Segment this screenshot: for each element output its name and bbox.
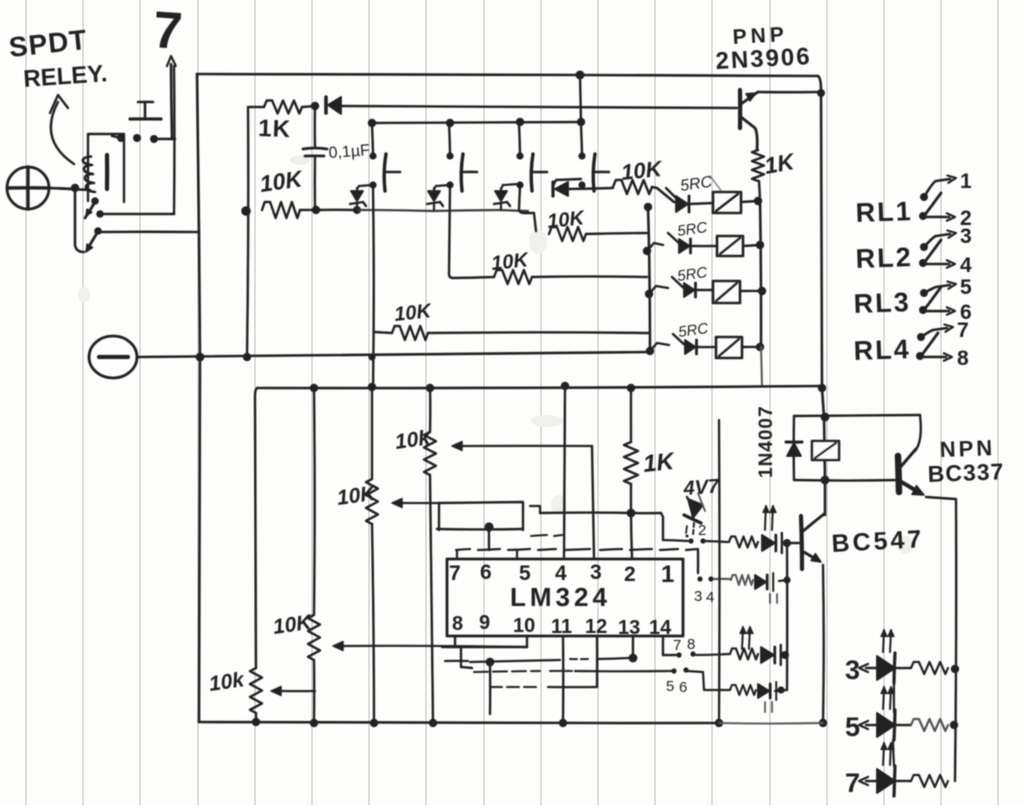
mid rail x719	[718, 420, 721, 722]
node pin13	[629, 654, 638, 663]
resistor output 3	[911, 662, 948, 674]
wire row1 to BC547 base	[787, 542, 799, 544]
node bottom mid rail	[715, 719, 723, 727]
switch contact 2	[919, 212, 927, 220]
diode D4 1N4007	[787, 443, 801, 456]
relay output rail	[760, 201, 761, 347]
node right rail ch4	[756, 343, 764, 351]
wire bus to P1	[429, 388, 432, 432]
Q5 emitter	[741, 92, 758, 104]
switch S1 contacts	[117, 134, 125, 142]
stub pin6	[488, 529, 490, 550]
wire LED cathode link	[893, 683, 895, 712]
wire LED 7 to resistor	[895, 780, 911, 782]
SCR3	[684, 283, 695, 297]
svg-text:1K: 1K	[762, 148, 797, 179]
svg-text:7: 7	[449, 562, 461, 585]
tick pin5	[516, 550, 518, 559]
relay K2 coil box	[812, 441, 839, 460]
wire Q7 emitter to right rail	[926, 497, 955, 499]
bottom bus	[199, 722, 719, 723]
arrow output 3	[866, 667, 877, 669]
transistor cell Q2	[449, 124, 450, 153]
node rail ch2	[643, 247, 651, 255]
svg-text:RL3: RL3	[853, 287, 911, 319]
pencil mark ch1	[710, 176, 722, 192]
lower supply bus	[257, 386, 822, 388]
svg-text:3: 3	[590, 561, 602, 584]
svg-text:RL4: RL4	[853, 334, 911, 366]
svg-text:10K: 10K	[393, 300, 433, 326]
wire cell2 to R ch3	[453, 277, 494, 278]
feedback loop rectangle pin6	[439, 502, 523, 530]
node row1 output	[783, 539, 791, 547]
top supply wire	[197, 74, 818, 76]
transistor Q6 BC547 base bar	[801, 516, 802, 569]
svg-text:4: 4	[960, 254, 972, 277]
wire P4 to bottom bus	[255, 713, 257, 722]
wire pin9 hook	[461, 648, 472, 668]
wire P1 to bottom bus	[430, 475, 433, 722]
relay RL2 coil box	[717, 236, 743, 256]
wire SCR4 to RL4	[697, 346, 716, 349]
svg-text:3: 3	[845, 655, 860, 685]
svg-text:BC337: BC337	[927, 458, 1004, 487]
wire RL4 to rail	[742, 346, 760, 348]
node bus right rail	[818, 384, 826, 392]
node cell1 bus	[368, 119, 376, 127]
jog at left of pin2 wire	[530, 506, 540, 513]
wire cell1 collector down	[372, 186, 375, 388]
wire SCR2 to RL2	[691, 245, 717, 247]
wire 10K to cap bottom	[300, 209, 316, 211]
svg-text:14: 14	[649, 617, 672, 639]
wire SCR1 to relay RL1 coil	[690, 203, 713, 204]
svg-text:9: 9	[479, 612, 490, 634]
wire P1 wiper to pin3	[592, 446, 594, 558]
svg-text:5: 5	[519, 562, 531, 585]
left SCR rail	[648, 206, 650, 352]
wire 7-line down	[173, 66, 176, 214]
arrows LED 7	[883, 743, 884, 765]
wire top to cell4	[580, 75, 581, 122]
svg-text:6: 6	[480, 561, 492, 584]
relay loop right curve	[915, 415, 921, 451]
wire ch1 diag	[652, 187, 674, 202]
relay moving arm lower	[88, 233, 97, 248]
wire LED 3 to resistor	[895, 667, 911, 669]
wire bus to P3	[313, 388, 316, 615]
wire ch4 hook	[650, 343, 669, 351]
svg-text:10K: 10K	[620, 156, 665, 185]
node bus P2	[368, 383, 376, 391]
node row3 output	[781, 651, 789, 659]
svg-text:8: 8	[452, 613, 463, 635]
relay RL1 coil box	[713, 192, 741, 213]
svg-text:12: 12	[585, 616, 607, 638]
gate bus wire	[316, 209, 357, 212]
wire lineC pin12	[490, 686, 540, 688]
SCR2	[679, 239, 690, 253]
wire 1K to relay rail	[759, 181, 760, 201]
wire row2 to rail	[779, 580, 787, 581]
wire ch3 hook	[649, 286, 668, 294]
wire RL2 to rail	[743, 245, 760, 246]
wire RL3 to rail	[740, 290, 762, 293]
wire pin2 horizontal	[540, 511, 631, 514]
resistor 1K top	[264, 101, 302, 114]
svg-text:3: 3	[960, 225, 972, 248]
node top supply	[576, 71, 585, 80]
svg-text:11: 11	[551, 616, 572, 638]
node right rail ch2	[756, 241, 764, 249]
node row5 rail	[950, 721, 958, 729]
svg-text:RL1: RL1	[855, 196, 913, 228]
SCR1	[676, 196, 688, 212]
svg-text:4: 4	[555, 562, 567, 585]
relay moving arm upper	[91, 197, 99, 205]
node cap junction top	[311, 102, 319, 110]
wire Q6 emitter down	[822, 565, 825, 723]
potentiometer P4 10k	[250, 668, 262, 713]
dashes zener to contact	[693, 523, 694, 535]
right top rail	[818, 76, 825, 515]
svg-text:13: 13	[618, 617, 640, 639]
SCR4	[685, 340, 696, 354]
arrow output 7	[866, 780, 877, 782]
relay RL4 coil box	[716, 337, 742, 358]
svg-text:BC547: BC547	[831, 525, 925, 558]
potentiometer P3 10K	[308, 615, 320, 660]
wire R ch4 to rail	[428, 331, 648, 334]
transistor cell Q4	[581, 124, 582, 153]
SCR4 gate flag	[673, 334, 687, 347]
switch arm RL	[924, 287, 941, 310]
wire R ch2 to rail	[586, 233, 647, 234]
minus bus wire	[138, 352, 650, 357]
switch contact 6	[919, 306, 927, 314]
Q7 emitter	[898, 480, 920, 493]
node loop top	[821, 413, 830, 422]
wire + to coil	[49, 188, 90, 190]
relay K1 coil box	[88, 134, 124, 202]
switch contact 3	[920, 243, 928, 251]
diode D1	[324, 97, 328, 113]
svg-text:1K: 1K	[258, 115, 292, 143]
node rail ch3	[645, 290, 653, 298]
diode D2 channel1 input	[551, 182, 554, 196]
arrow output 5	[866, 724, 877, 726]
LED output 7	[877, 769, 895, 793]
svg-text:4: 4	[706, 589, 714, 606]
node loop bottom	[821, 476, 830, 485]
svg-text:5: 5	[960, 276, 972, 299]
tick pin10	[526, 636, 528, 647]
wire cell3 to zener Z3	[503, 184, 520, 185]
wire 1K to pin2 node	[630, 484, 632, 513]
transistor Q5 2N3906 base bar	[738, 90, 742, 128]
wire + to node	[49, 188, 76, 189]
wire bus to P2	[371, 387, 373, 479]
svg-text:0,1µF: 0,1µF	[328, 142, 371, 162]
wire pin11 down to bus	[562, 636, 565, 722]
resistor 1K right	[752, 150, 764, 181]
svg-text:2: 2	[624, 563, 636, 586]
wire node to pin2	[631, 513, 632, 558]
svg-text:7: 7	[845, 768, 860, 798]
ticks row4	[764, 702, 766, 712]
resistor R row3	[730, 649, 758, 660]
wire R ch3 to rail	[532, 275, 647, 278]
wire P3 to bottom bus	[313, 660, 316, 722]
transistor cell Q1	[372, 124, 373, 153]
wire 5 6 to row4	[686, 671, 730, 690]
node bottom P3	[310, 719, 318, 727]
SCR3 gate flag	[672, 277, 686, 290]
svg-text:7: 7	[151, 1, 184, 61]
wire pin12 down	[596, 636, 598, 687]
terminal - negative	[89, 336, 137, 378]
wire bus corner down P4	[255, 388, 257, 668]
node row4 output	[777, 686, 784, 693]
wire row1 to resistor	[663, 540, 688, 541]
right output rail	[955, 499, 956, 781]
push-button S1 symbol	[130, 117, 161, 120]
wire second rail	[249, 106, 264, 108]
optocoupler LED row4	[758, 684, 769, 698]
relay loop bottom wire	[794, 479, 897, 482]
wire emitter to rail	[758, 91, 820, 94]
node bus 1K line	[627, 384, 635, 392]
node pin2 wire	[627, 509, 636, 518]
node left rail 10K	[241, 206, 251, 216]
arrow up to 7	[171, 64, 172, 139]
switch contact 1	[920, 193, 928, 201]
wire ch2 hook	[647, 243, 663, 251]
resistor output 7	[911, 775, 948, 787]
optocoupler LED row2	[755, 575, 766, 589]
curved arrow to relay	[51, 102, 74, 164]
node emitter rail	[817, 89, 825, 97]
node feedback pin6	[484, 522, 493, 531]
node cell1 minus crossing	[368, 353, 375, 360]
node right rail ch3	[758, 287, 766, 295]
tick pin7	[456, 550, 458, 559]
switch contact 8	[916, 352, 924, 360]
svg-text:1: 1	[661, 561, 674, 588]
zener Z1	[356, 188, 358, 191]
node zener1 bus	[353, 206, 361, 214]
node bus P3	[310, 384, 318, 392]
LED output 3	[877, 656, 895, 680]
jumper contacts 3 4	[697, 576, 702, 581]
zener Z2	[433, 188, 435, 191]
node row2 output	[783, 576, 790, 583]
contact node mid	[96, 210, 104, 218]
wire lineA rail down	[489, 662, 492, 714]
wire mid contact to switch rail	[100, 213, 174, 216]
node cell3 bus	[516, 118, 524, 126]
wire P2 to bottom bus	[372, 524, 374, 722]
arrows LED 3	[883, 630, 884, 652]
transistor cell Q3	[519, 124, 520, 153]
drop rail to jumper 3 4	[697, 550, 699, 573]
SCR2 gate flag	[668, 233, 682, 246]
wire LED 5 to resistor	[895, 724, 911, 726]
wire cell1 rail to R ch4	[374, 332, 392, 333]
relay RL3 coil box	[713, 281, 740, 303]
P3 wiper arrow wire	[343, 646, 527, 647]
svg-text:7: 7	[673, 637, 681, 654]
svg-text:LM324: LM324	[510, 582, 611, 612]
zener Z3	[500, 188, 502, 191]
capacitor C1 0.1uF	[314, 107, 317, 148]
terminal + positive	[7, 167, 49, 209]
svg-text:7: 7	[957, 319, 969, 342]
node bottom P2	[370, 719, 378, 727]
relay loop left	[793, 416, 796, 480]
node bottom P4	[252, 718, 260, 726]
node cap bottom	[312, 206, 320, 214]
jumper contacts 5 6	[671, 668, 676, 673]
node cell2 bus	[446, 119, 454, 127]
switch contact 4	[919, 259, 927, 267]
svg-text:8: 8	[687, 636, 695, 653]
ticks row2	[769, 594, 771, 603]
dashed rail above LM324	[456, 549, 470, 550]
upper left rail segment	[247, 107, 248, 357]
transistor Q7 BC337 base bar	[898, 456, 899, 492]
jumper contacts 7 8	[676, 652, 681, 657]
dash marks above box	[531, 535, 547, 536]
relay loop top wire	[794, 415, 920, 416]
P1 wiper arrow wire	[462, 445, 592, 447]
svg-text:8: 8	[957, 347, 969, 370]
wire pin14 down	[662, 636, 664, 655]
svg-text:2N3906: 2N3906	[715, 43, 812, 75]
wire pin13 down	[632, 636, 634, 658]
resistor 1K lower	[630, 388, 632, 442]
svg-text:RL2: RL2	[855, 242, 913, 274]
LED output 5	[877, 713, 895, 737]
svg-text:1K: 1K	[642, 448, 677, 478]
jumper contacts 1 2	[688, 538, 693, 543]
wire cell4 to input diode	[554, 179, 581, 184]
node rail ch4	[646, 347, 654, 355]
svg-text:1N4007: 1N4007	[756, 405, 777, 478]
resistor output 5	[911, 719, 948, 731]
Q7 collector	[898, 449, 916, 470]
wire cell2 collector down	[449, 186, 453, 278]
switch contact 5	[920, 289, 928, 297]
potentiometer P2 10K	[366, 479, 378, 524]
node emitter bottom bus	[819, 719, 827, 727]
switch contact 7	[917, 333, 925, 341]
resistor R row4	[730, 685, 756, 695]
resistor 10K left	[262, 202, 300, 218]
Q5 collector	[741, 117, 757, 150]
node bus P1	[426, 384, 434, 392]
svg-text:6: 6	[679, 679, 687, 696]
switch arm RL	[924, 193, 941, 216]
wire diode to PNP base	[341, 106, 737, 108]
node left rail minus	[243, 353, 251, 361]
node bus pin4 line	[561, 382, 569, 390]
wire cell2 to zener Z2	[436, 185, 450, 186]
svg-text:5: 5	[845, 712, 860, 742]
SCR1 gate flag	[666, 188, 679, 201]
switch arm RL	[924, 240, 941, 263]
wire switch to 7-line	[154, 138, 175, 141]
resistor R row1	[729, 537, 758, 548]
wire row3	[696, 654, 730, 655]
Q6 emitter	[802, 551, 819, 561]
resistor 10K ch1	[613, 180, 652, 194]
P4 wiper arrow	[281, 690, 315, 692]
resistor R row2	[731, 575, 753, 585]
node minus left rail	[196, 353, 205, 362]
relay K1 coil	[83, 157, 95, 193]
wire lineB to 5 6	[474, 671, 540, 672]
wire SCR3 to RL3	[696, 289, 713, 291]
paper smudges	[78, 155, 912, 554]
node row3 rail	[951, 665, 959, 673]
wire row2	[714, 578, 731, 580]
arrows LED 5	[883, 687, 884, 709]
Q6 collector	[802, 514, 824, 532]
node rail ch1	[644, 203, 652, 211]
P2 wiper arrow wire	[402, 502, 440, 504]
step down to row1	[661, 513, 663, 540]
svg-text:2: 2	[698, 522, 706, 539]
contact node lower	[94, 227, 102, 235]
left rail	[197, 74, 200, 722]
wire lineA pin13	[445, 660, 468, 662]
tick pin8	[454, 637, 456, 647]
node lineA	[470, 660, 560, 662]
svg-text:10: 10	[513, 615, 535, 637]
wire + node down to relay arm	[75, 189, 84, 252]
switch arm RL	[921, 333, 938, 356]
wire lower contact to left rail	[99, 231, 198, 234]
op-amp U1 LM324 box	[447, 559, 683, 636]
potentiometer P1 10k	[424, 432, 436, 475]
opto output rail	[786, 543, 789, 690]
wire bus to pin4	[564, 386, 565, 558]
node at + output	[71, 184, 79, 192]
node bottom P1	[429, 719, 437, 727]
wire pin8 pin10 link	[442, 646, 527, 648]
wire cell3 collector jog	[519, 186, 536, 231]
svg-text:3: 3	[694, 588, 702, 605]
cell bus wire	[372, 122, 581, 123]
wire RL1 to right rail	[741, 201, 758, 202]
wire cell1 to zener Z1	[359, 185, 373, 186]
arrows row3	[742, 627, 743, 649]
wire to R ch1	[568, 188, 613, 189]
node cell4 bus	[577, 118, 585, 126]
arrows row1	[765, 506, 766, 530]
node bottom pin11	[559, 719, 567, 727]
svg-text:1: 1	[960, 170, 972, 193]
svg-text:5: 5	[666, 678, 674, 695]
optocoupler LED row1	[762, 535, 775, 551]
wire to diode node	[302, 106, 316, 107]
node right rail ch1	[754, 197, 762, 205]
optocoupler LED row3	[761, 647, 774, 663]
